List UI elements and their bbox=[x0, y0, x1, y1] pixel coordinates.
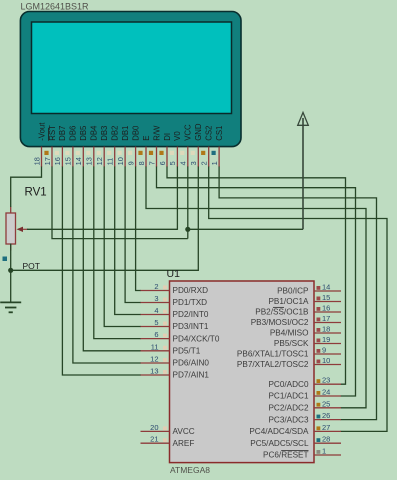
wire CS1 LCD pin1 to PC3 bbox=[219, 167, 376, 420]
svg-text:27: 27 bbox=[322, 423, 330, 432]
wire DB7 LCD to PD7 bbox=[62, 167, 141, 376]
svg-text:12: 12 bbox=[95, 157, 104, 165]
svg-text:11: 11 bbox=[151, 342, 159, 351]
svg-text:VCC: VCC bbox=[184, 124, 193, 141]
svg-text:PD3/INT1: PD3/INT1 bbox=[173, 322, 209, 331]
svg-text:15: 15 bbox=[64, 157, 73, 165]
svg-text:PD6/AIN0: PD6/AIN0 bbox=[173, 359, 210, 368]
svg-text:DI: DI bbox=[163, 133, 172, 141]
node POT origin marker bbox=[3, 257, 8, 262]
svg-text:15: 15 bbox=[322, 293, 330, 302]
svg-text:13: 13 bbox=[85, 157, 94, 165]
wire GND LCD pin3 to POT wire bbox=[11, 167, 199, 271]
svg-text:6: 6 bbox=[158, 161, 167, 165]
wire DB2 LCD to PD2 bbox=[115, 167, 141, 315]
svg-text:PB1/OC1A: PB1/OC1A bbox=[268, 297, 309, 306]
svg-text:PD2/INT0: PD2/INT0 bbox=[173, 310, 209, 319]
LCD pin name labels bbox=[37, 122, 224, 141]
wire DB3 LCD to PD3 bbox=[104, 167, 141, 327]
wire DB5 LCD to PD5 bbox=[83, 167, 141, 351]
svg-text:2: 2 bbox=[200, 161, 209, 165]
svg-text:17: 17 bbox=[322, 314, 330, 323]
svg-text:18: 18 bbox=[322, 325, 330, 334]
svg-text:14: 14 bbox=[74, 157, 83, 165]
svg-text:3: 3 bbox=[189, 161, 198, 165]
U1 right pin numbers bbox=[322, 283, 330, 456]
U1 left pin numbers bbox=[150, 282, 158, 444]
wire VCC LCD pin4 down to RST tie bbox=[187, 167, 189, 239]
svg-text:LGM12641BS1R: LGM12641BS1R bbox=[21, 2, 90, 12]
wire CS2 LCD pin2 to PC4 bbox=[209, 167, 387, 432]
wire RV1 bottom to POT node bbox=[10, 244, 12, 271]
svg-text:DB3: DB3 bbox=[100, 126, 109, 141]
svg-text:RV1: RV1 bbox=[25, 187, 47, 199]
svg-text:10: 10 bbox=[322, 356, 330, 365]
svg-text:2: 2 bbox=[154, 282, 158, 291]
svg-text:POT: POT bbox=[23, 261, 40, 271]
power +V arrow bbox=[298, 113, 309, 230]
svg-text:PB7/XTAL2/TOSC2: PB7/XTAL2/TOSC2 bbox=[237, 360, 309, 369]
wire VCC node to power arrow bbox=[188, 228, 303, 230]
svg-text:26: 26 bbox=[322, 411, 330, 420]
svg-text:CS2: CS2 bbox=[205, 126, 214, 141]
svg-text:9: 9 bbox=[126, 161, 135, 165]
svg-text:1: 1 bbox=[210, 161, 219, 165]
svg-text:5: 5 bbox=[154, 318, 158, 327]
svg-text:DB6: DB6 bbox=[69, 126, 78, 141]
svg-text:3: 3 bbox=[154, 294, 158, 303]
svg-text:DB2: DB2 bbox=[111, 126, 120, 141]
svg-text:17: 17 bbox=[43, 157, 52, 165]
wire DB0 LCD to PD0 bbox=[136, 167, 141, 291]
wire DI LCD pin6 to PC0 bbox=[167, 167, 346, 385]
svg-text:16: 16 bbox=[322, 304, 330, 313]
svg-text:RST: RST bbox=[48, 125, 57, 141]
svg-text:PD4/XCK/T0: PD4/XCK/T0 bbox=[173, 334, 220, 343]
svg-text:PC1/ADC1: PC1/ADC1 bbox=[268, 392, 308, 401]
U1 left pin labels bbox=[173, 286, 220, 448]
svg-text:6: 6 bbox=[154, 330, 158, 339]
svg-text:ATMEGA8: ATMEGA8 bbox=[170, 465, 210, 475]
svg-text:DB0: DB0 bbox=[131, 125, 140, 141]
svg-text:PC2/ADC2: PC2/ADC2 bbox=[268, 404, 308, 413]
U1 right pin labels bbox=[237, 287, 309, 460]
wire RV1 wiper to V0 column bbox=[27, 228, 177, 230]
wire RST LCD pin17 to VCC tie bbox=[52, 167, 188, 239]
svg-text:PC5/ADC5/SCL: PC5/ADC5/SCL bbox=[250, 439, 309, 448]
wire DB6 LCD to PD6 bbox=[73, 167, 141, 364]
junction VCC/wiper node bbox=[185, 227, 190, 232]
svg-text:DB7: DB7 bbox=[58, 126, 67, 141]
svg-text:PB4/MISO: PB4/MISO bbox=[270, 329, 309, 338]
U1 right pin stubs bbox=[314, 291, 341, 455]
wire DB1 LCD to PD1 bbox=[125, 167, 141, 303]
svg-text:PC4/ADC4/SDA: PC4/ADC4/SDA bbox=[249, 427, 309, 436]
svg-text:AVCC: AVCC bbox=[173, 427, 195, 436]
ground symbol bbox=[0, 302, 21, 312]
svg-text:PD7/AIN1: PD7/AIN1 bbox=[173, 371, 210, 380]
svg-text:10: 10 bbox=[116, 157, 125, 165]
wire E LCD pin8 to PC2 bbox=[146, 167, 366, 408]
svg-text:PC6/RESET: PC6/RESET bbox=[263, 451, 309, 460]
svg-text:PB3/MOSI/OC2: PB3/MOSI/OC2 bbox=[251, 318, 309, 327]
LCD pin state squares bbox=[44, 151, 215, 155]
svg-text:PD5/T1: PD5/T1 bbox=[173, 347, 201, 356]
U1 left pin state squares bbox=[163, 286, 167, 443]
svg-text:18: 18 bbox=[32, 157, 41, 165]
potentiometer RV1 wiper arrow bbox=[22, 228, 28, 230]
wire -Vout LCD pin18 to RV1 top bbox=[11, 167, 42, 208]
svg-text:11: 11 bbox=[106, 158, 115, 166]
svg-text:PC3/ADC3: PC3/ADC3 bbox=[268, 415, 308, 424]
svg-text:19: 19 bbox=[322, 335, 330, 344]
svg-text:PD0/RXD: PD0/RXD bbox=[173, 286, 209, 295]
LCD pin stubs bbox=[42, 147, 220, 167]
U1 right pin state squares bbox=[317, 286, 321, 454]
svg-text:DB5: DB5 bbox=[79, 125, 88, 141]
svg-text:21: 21 bbox=[150, 435, 158, 444]
svg-text:-Vout: -Vout bbox=[37, 122, 46, 141]
svg-text:PB2/SS/OC1B: PB2/SS/OC1B bbox=[255, 308, 309, 317]
U1 ATMEGA8 body bbox=[170, 281, 315, 463]
svg-text:13: 13 bbox=[150, 367, 158, 376]
svg-text:GND: GND bbox=[194, 123, 203, 141]
svg-text:U1: U1 bbox=[167, 268, 181, 280]
svg-text:23: 23 bbox=[322, 376, 330, 385]
svg-text:24: 24 bbox=[322, 388, 330, 397]
wire R/W LCD pin7 to PC1 bbox=[157, 167, 356, 397]
LCD pin numbers bbox=[32, 157, 219, 165]
svg-text:DB4: DB4 bbox=[90, 125, 99, 141]
svg-text:4: 4 bbox=[179, 161, 188, 165]
svg-text:CS1: CS1 bbox=[215, 126, 224, 141]
wire DB4 LCD to PD4 bbox=[94, 167, 141, 339]
svg-text:PB0/ICP: PB0/ICP bbox=[277, 287, 309, 296]
LCD module body bbox=[20, 12, 241, 147]
svg-text:E: E bbox=[142, 136, 151, 141]
junction POT node bbox=[8, 268, 13, 273]
svg-text:14: 14 bbox=[322, 283, 330, 292]
wire V0 LCD pin5 down bbox=[176, 167, 178, 230]
svg-text:9: 9 bbox=[322, 346, 326, 355]
U1 left pin stubs bbox=[141, 291, 170, 444]
svg-text:PD1/TXD: PD1/TXD bbox=[173, 298, 208, 307]
svg-text:1: 1 bbox=[322, 447, 326, 456]
svg-text:PB6/XTAL1/TOSC1: PB6/XTAL1/TOSC1 bbox=[237, 350, 309, 359]
svg-text:25: 25 bbox=[322, 399, 330, 408]
svg-text:20: 20 bbox=[150, 423, 158, 432]
svg-text:V0: V0 bbox=[173, 131, 182, 141]
svg-text:7: 7 bbox=[147, 161, 156, 165]
svg-text:16: 16 bbox=[53, 157, 62, 165]
svg-text:4: 4 bbox=[154, 306, 158, 315]
svg-text:PC0/ADC0: PC0/ADC0 bbox=[268, 380, 308, 389]
svg-text:12: 12 bbox=[150, 355, 158, 364]
svg-text:8: 8 bbox=[137, 161, 146, 165]
wire POT node to ground bbox=[10, 270, 12, 302]
svg-text:PB5/SCK: PB5/SCK bbox=[274, 339, 309, 348]
potentiometer RV1 body bbox=[6, 207, 28, 251]
LCD screen bbox=[32, 22, 232, 114]
svg-text:R/W: R/W bbox=[152, 125, 161, 141]
svg-text:DB1: DB1 bbox=[121, 126, 130, 141]
svg-text:5: 5 bbox=[168, 161, 177, 165]
svg-text:AREF: AREF bbox=[173, 439, 195, 448]
svg-text:28: 28 bbox=[322, 435, 330, 444]
